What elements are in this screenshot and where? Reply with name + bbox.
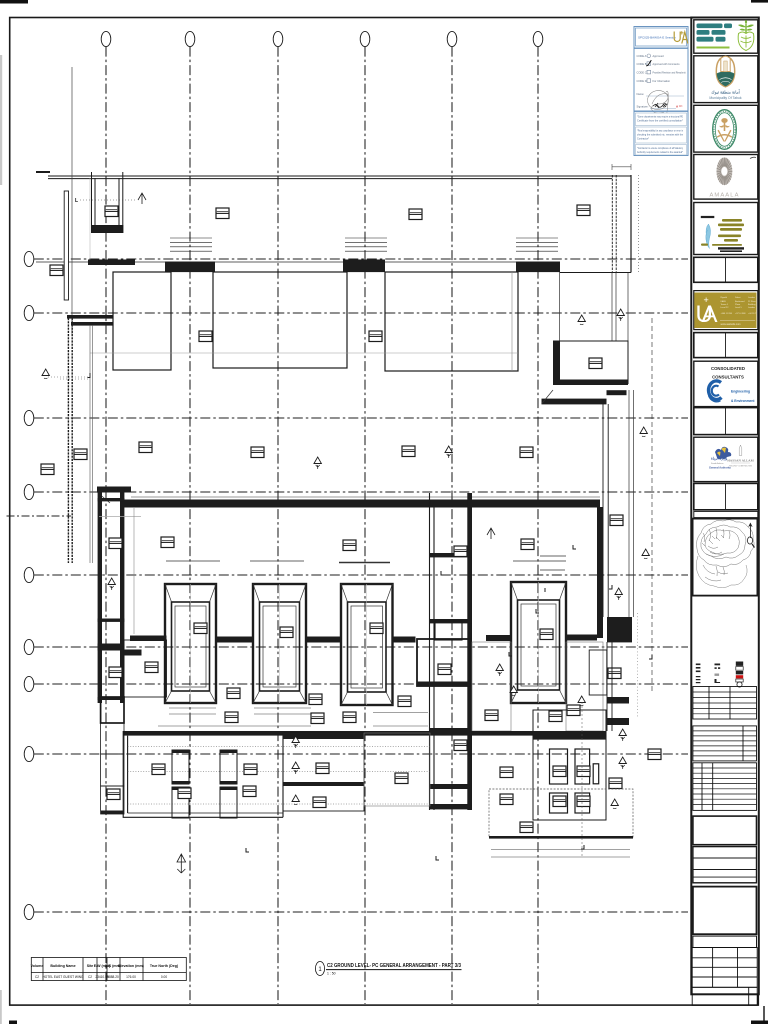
svg-text:CONSULTANTS: CONSULTANTS <box>712 375 744 380</box>
right strip verticals <box>607 642 612 731</box>
svg-text:Plaza: Plaza <box>735 304 741 306</box>
left room block <box>124 636 167 698</box>
svg-text:www.uastudio.com: www.uastudio.com <box>721 323 741 326</box>
box B rows <box>693 847 757 883</box>
bottom room <box>489 789 633 839</box>
U+A logo box <box>694 291 758 330</box>
svg-text:Level 22: Level 22 <box>721 307 730 309</box>
bottom table <box>31 958 186 981</box>
svg-text:Building: Building <box>748 304 756 306</box>
top band inner right double wall <box>612 175 616 273</box>
svg-text:London: London <box>748 307 756 309</box>
thin vertical line x72 <box>71 67 73 335</box>
svg-text:London: London <box>748 297 756 299</box>
dotted vertical x638 <box>638 175 640 273</box>
legend symbols <box>696 662 743 688</box>
doors lower building <box>161 537 174 548</box>
svg-text:AMAALA: AMAALA <box>709 193 739 199</box>
door in U <box>105 206 118 217</box>
title block column <box>691 18 759 1006</box>
left corner complex <box>97 487 131 493</box>
svg-text:Volume: Volume <box>31 964 44 968</box>
svg-text:Name:: Name: <box>637 92 645 96</box>
hatched bands left <box>67 315 113 319</box>
partner logos box <box>694 437 758 481</box>
connecting walls between towers <box>216 635 597 643</box>
site map box <box>693 519 758 596</box>
svg-text:Tower 4: Tower 4 <box>721 303 729 306</box>
logo box triple-bay project <box>694 203 758 255</box>
svg-text:Dubai: Dubai <box>735 297 741 299</box>
narrow band <box>694 511 758 517</box>
doors middle band <box>74 449 87 460</box>
svg-text:*Contractor to ensure complian: *Contractor to ensure compliance of all … <box>637 147 684 150</box>
long top wall of lower building <box>124 500 600 508</box>
roof rect 2 <box>213 272 347 368</box>
bottom arrow <box>177 854 186 873</box>
svg-text:*Some departments may require: *Some departments may require a structur… <box>637 116 683 119</box>
svg-text:Building Name: Building Name <box>50 964 75 968</box>
empty split box 4 <box>694 483 758 509</box>
dotted leader y379 <box>60 378 90 380</box>
svg-text:Authority requirements related: Authority requirements related to the aw… <box>637 151 683 154</box>
svg-text:22 Floor: 22 Floor <box>748 300 756 303</box>
ministry palm emblem <box>738 32 754 51</box>
windows top band <box>170 238 212 251</box>
svg-text:Site: Site <box>87 964 94 968</box>
dimension line x652 <box>651 318 653 694</box>
svg-text:Elevation (mm): Elevation (mm) <box>118 964 145 968</box>
svg-text:9888.20: 9888.20 <box>107 975 119 979</box>
svg-text:CODE D: CODE D <box>637 79 647 83</box>
doors right band <box>454 740 467 751</box>
top band right edge <box>630 175 632 273</box>
wing far right section <box>364 733 430 806</box>
wing top wall <box>123 731 606 736</box>
bottom box <box>692 987 757 1005</box>
tower T1 <box>165 584 216 703</box>
dotted interior lines <box>128 746 430 748</box>
flanking rooms T4 <box>472 642 511 731</box>
svg-text:General Authority: General Authority <box>709 466 731 470</box>
logo box ministry <box>694 20 758 53</box>
approval stamp box <box>634 27 688 156</box>
grid bubbles left <box>24 251 34 919</box>
empty box C <box>693 887 757 935</box>
svg-text:Boulevard: Boulevard <box>735 300 745 303</box>
left entry U element <box>92 172 123 233</box>
bottom-left black mark <box>9 1021 17 1024</box>
wing pillar pairs <box>172 750 237 818</box>
svg-text:C2 GROUND LEVEL- PC GENERAL AR: C2 GROUND LEVEL- PC GENERAL ARRANGEMENT … <box>327 963 461 969</box>
right stair dark block <box>607 617 632 642</box>
svg-text:UA: UA <box>696 301 718 328</box>
triangles lower building <box>496 664 503 676</box>
box D <box>693 936 757 947</box>
svg-text:Provided Revision and Resubmit: Provided Revision and Resubmit <box>653 71 686 75</box>
doors top band <box>216 208 229 219</box>
left tower shaft <box>98 487 125 703</box>
left vertical wall <box>68 318 72 563</box>
table 3 <box>693 763 757 811</box>
wing doors <box>152 764 165 775</box>
table 1 <box>693 687 757 720</box>
svg-text:Contractor*: Contractor* <box>637 138 649 141</box>
drawing title <box>315 962 461 976</box>
svg-text:أمانة منطقة تبوك: أمانة منطقة تبوك <box>711 89 739 96</box>
corridor doors between roofs <box>199 331 212 342</box>
top band bottom line <box>36 261 560 263</box>
svg-text:*Final responsibility for any: *Final responsibility for any compliance… <box>637 130 684 133</box>
upper right block <box>553 341 628 384</box>
tower T4 <box>511 582 566 703</box>
logo box amaala <box>694 155 758 200</box>
right block stub walls <box>542 399 607 405</box>
roof rect 1 <box>113 272 171 370</box>
arrow marker top-left <box>138 193 146 204</box>
triangles middle band <box>445 446 452 458</box>
verticals to right block <box>560 273 629 342</box>
svg-text:Approved: Approved <box>653 54 665 58</box>
logo box saudi emblem <box>694 105 758 152</box>
svg-text:C2: C2 <box>35 975 39 979</box>
empty split box 2 <box>694 333 758 358</box>
svg-text:وزارة الرياة: وزارة الرياة <box>711 457 728 461</box>
svg-text:For Information: For Information <box>653 79 671 83</box>
logo box tabuk <box>694 56 758 103</box>
consolidated consultants box <box>694 361 758 406</box>
top band top edge <box>48 176 631 179</box>
svg-text:CODE A: CODE A <box>637 54 647 58</box>
big room right wall <box>597 507 603 638</box>
empty split box 3 <box>694 408 758 435</box>
top-right black bar <box>751 0 768 3</box>
left thin wall <box>64 191 68 300</box>
vertical dim x582 <box>581 702 583 858</box>
svg-text:KAFD: KAFD <box>721 300 727 303</box>
svg-text:True North (Deg): True North (Deg) <box>150 964 179 968</box>
svg-text:HOTEL EAST GUEST WING: HOTEL EAST GUEST WING <box>42 975 84 979</box>
shaft cross block <box>417 639 470 686</box>
svg-text:& Environment: & Environment <box>731 399 755 403</box>
svg-text:1 : 50: 1 : 50 <box>327 972 336 976</box>
svg-text:CODE C: CODE C <box>637 71 647 75</box>
svg-text:HOLDING • CONSTRUCTION: HOLDING • CONSTRUCTION <box>729 466 753 468</box>
svg-text:+971 4 368: +971 4 368 <box>735 313 746 315</box>
svg-text:0.00: 0.00 <box>161 975 167 979</box>
svg-text:Level 5: Level 5 <box>735 307 743 309</box>
svg-text:Certificate from the certified: Certificate from the certified consultat… <box>637 120 683 123</box>
hatched wall segs at y262 <box>88 260 560 273</box>
right complex stair room <box>533 710 606 820</box>
svg-text:+: + <box>704 295 709 305</box>
bottom-right black mark <box>751 1021 768 1024</box>
dim rows y705-726 <box>158 708 428 726</box>
svg-text:CODE B: CODE B <box>637 62 647 66</box>
faint left verticals <box>89 178 91 262</box>
tower T2 <box>253 584 306 703</box>
top dim line right <box>612 164 631 170</box>
wing main rect <box>123 731 283 817</box>
right small room <box>589 650 607 695</box>
svg-text:+44 20 7: +44 20 7 <box>748 313 757 315</box>
table 4 <box>692 948 757 988</box>
empty box A <box>693 816 757 845</box>
svg-text:A ***: A *** <box>676 105 683 109</box>
svg-text:L: L <box>75 198 78 204</box>
grid bubbles top <box>101 31 543 46</box>
svg-text:CONSOLIDATED: CONSOLIDATED <box>711 366 745 371</box>
towers <box>165 582 566 705</box>
svg-text:checking the submitted etc. re: checking the submitted etc. remains with… <box>637 134 684 137</box>
vertical grid lines <box>106 47 538 1004</box>
svg-text:SPC025-BAWGA-E Session: SPC025-BAWGA-E Session <box>638 36 676 40</box>
right wing verticals <box>603 404 608 617</box>
horizontal grid lines <box>34 259 688 912</box>
top band left step <box>36 171 50 173</box>
left gray strip <box>0 55 2 185</box>
table 2 <box>693 726 757 761</box>
svg-text:+966 11 834: +966 11 834 <box>721 313 733 315</box>
wing right room <box>283 733 364 811</box>
svg-text:Approved with Comments: Approved with Comments <box>653 62 681 66</box>
dim rows under grid 575 <box>166 556 566 570</box>
svg-text:176.00: 176.00 <box>126 975 136 979</box>
svg-text:Signature:: Signature: <box>637 105 649 109</box>
svg-text:C2: C2 <box>88 975 92 979</box>
svg-text:Municipality Of Tabuk: Municipality Of Tabuk <box>709 96 741 100</box>
svg-text:Engineering: Engineering <box>731 390 750 394</box>
tick marks <box>246 545 652 860</box>
tower T3 <box>341 584 393 705</box>
svg-text:HASSAN ALLAM: HASSAN ALLAM <box>727 459 753 463</box>
left margin triangle <box>48 376 88 378</box>
left stair block <box>101 697 124 814</box>
light interior line <box>90 352 518 354</box>
svg-text:Riyadh: Riyadh <box>721 297 728 299</box>
empty split box 1 <box>694 257 758 282</box>
caret symbol <box>487 528 495 539</box>
svg-text:Saudi Arabian: Saudi Arabian <box>711 462 723 465</box>
top-left black bar <box>0 0 28 4</box>
right triangles <box>619 729 626 741</box>
roof rect 3 <box>385 272 518 371</box>
bottom dims <box>491 850 630 858</box>
central shaft <box>430 493 473 810</box>
